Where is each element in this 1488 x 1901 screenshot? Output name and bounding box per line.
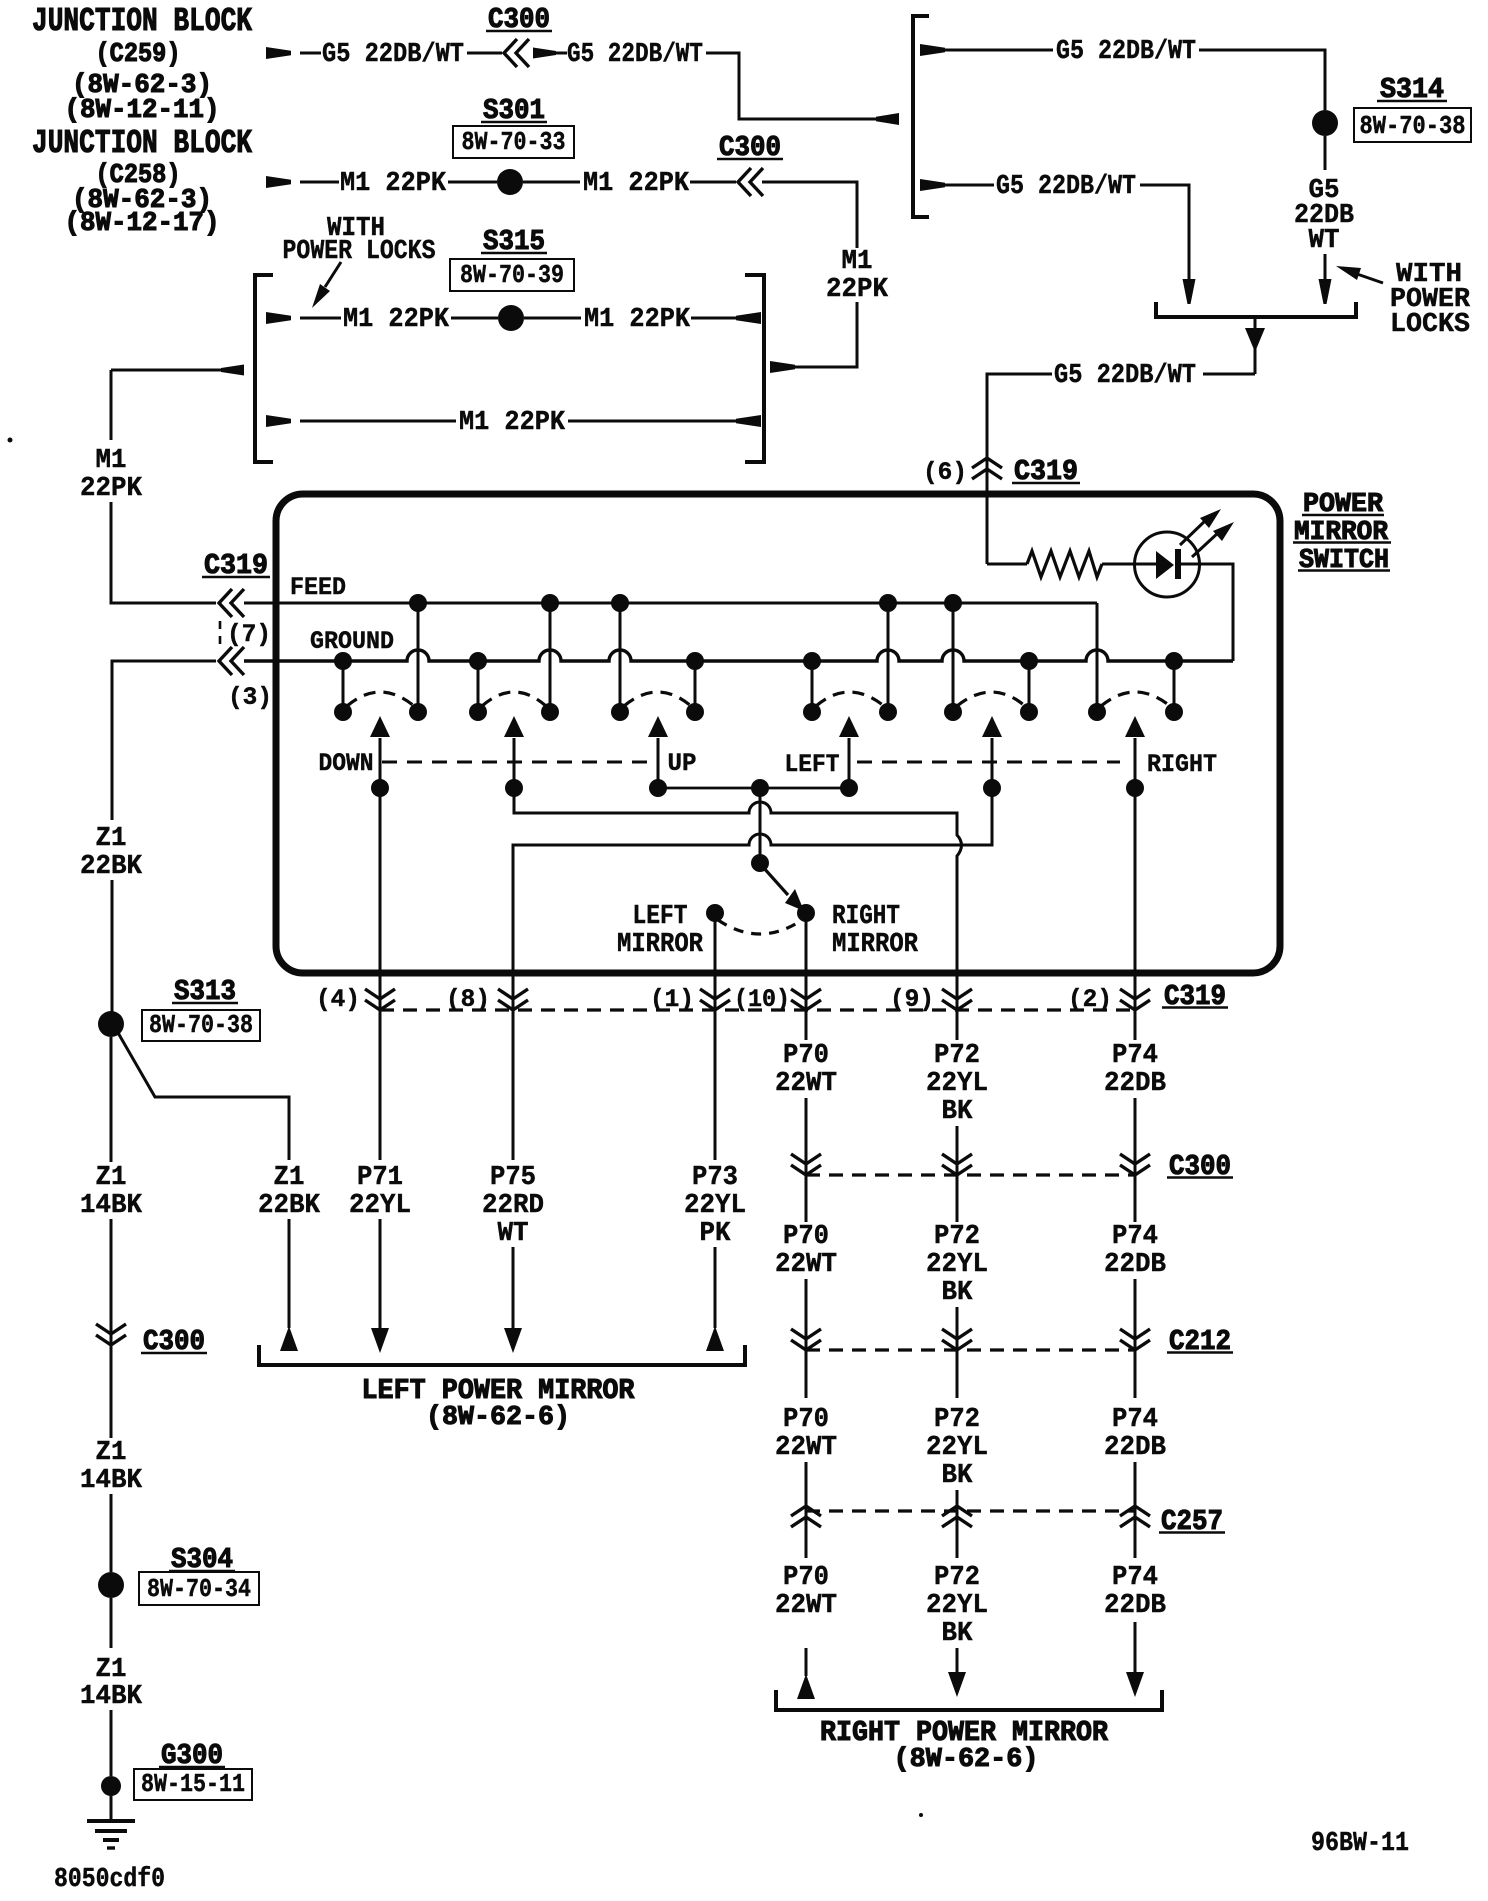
svg-text:(8): (8) [446,985,490,1014]
connector C319 pin (8) [498,989,528,999]
svg-text:22BK: 22BK [258,1191,321,1221]
svg-text:(8W-62-6): (8W-62-6) [894,1745,1039,1775]
connector C319 pin (1) [700,989,730,999]
connector C257 [806,1509,1135,1512]
wire left mirror contact to pin 1 [714,921,717,990]
wire Z1 14BK below S304 [110,1598,113,1648]
pointer arrow WITH POWER LOCKS [325,262,341,287]
switch pole 4: contacts/wiper [803,652,821,670]
bracket cup (with power locks join) [1156,302,1356,317]
svg-text:8W-70-34: 8W-70-34 [147,1574,251,1604]
node LEFT POWER MIRROR [259,1345,745,1365]
svg-text:P70: P70 [783,1041,829,1071]
svg-text:22PK: 22PK [826,275,889,305]
wire M1 22PK from S301 to C300 [523,181,580,184]
svg-text:G5 22DB/WT: G5 22DB/WT [322,40,464,70]
bracket left (power lock wires) [255,275,273,462]
wire pole2 common to pin 9 (crossover) [514,788,962,990]
wire right mirror contact to pin 10 [805,921,808,990]
wire G5 22DB/WT lower right [920,179,945,191]
connector C212 [806,1348,1135,1351]
svg-text:G5 22DB/WT: G5 22DB/WT [1056,37,1196,67]
svg-text:22WT: 22WT [775,1250,837,1280]
wire G5 22DB/WT to junction block C259 [266,47,291,59]
svg-text:LOCKS: LOCKS [1390,310,1470,340]
svg-text:JUNCTION BLOCK: JUNCTION BLOCK [32,125,252,162]
svg-text:8050cdf0: 8050cdf0 [54,1865,165,1895]
svg-text:(4): (4) [316,985,360,1014]
svg-text:GROUND: GROUND [310,627,394,656]
svg-text:22YL: 22YL [926,1250,988,1280]
wire P74 22DB chain [1134,988,1137,1040]
svg-text:G5 22DB/WT: G5 22DB/WT [1054,361,1196,391]
svg-text:22YL: 22YL [349,1191,411,1221]
svg-text:22DB: 22DB [1104,1250,1166,1280]
svg-text:M1 22PK: M1 22PK [340,169,447,199]
wire right-pole to pin 2 [1134,788,1137,990]
connector C300 (Z1) [96,1324,126,1334]
wire G5 22DB/WT upper right [920,44,945,56]
bracket right (power lock wires) [745,275,764,462]
svg-text:8W-70-38: 8W-70-38 [149,1010,253,1040]
wire G5 22DB/WT to mirror switch illumination [1254,317,1257,374]
svg-text:22DB: 22DB [1104,1433,1166,1463]
wire M1 22PK left of S315 [266,312,291,324]
svg-text:(8W-12-11): (8W-12-11) [65,96,220,126]
svg-text:96BW-11: 96BW-11 [1311,1829,1409,1859]
svg-text:Z1: Z1 [96,1655,127,1685]
node RIGHT MIRROR contact [797,904,815,922]
switch pole 6: contacts/wiper [1165,652,1183,670]
selector dashed throw arc [718,920,802,934]
svg-text:M1: M1 [842,247,873,277]
svg-text:22WT: 22WT [775,1591,837,1621]
svg-text:LEFT: LEFT [785,750,840,779]
svg-text:P74: P74 [1112,1563,1158,1593]
wire M1 22PK right of S315 [524,317,581,320]
svg-text:P73: P73 [692,1163,738,1193]
svg-text:22DB: 22DB [1104,1069,1166,1099]
wire up-pole to left-pole link [658,787,849,790]
svg-text:22DB: 22DB [1104,1591,1166,1621]
svg-text:RIGHT: RIGHT [1147,750,1217,779]
wire P70 22WT chain [805,988,808,1040]
junction selector common [751,779,769,797]
svg-text:22RD: 22RD [482,1191,544,1221]
svg-text:BK: BK [942,1619,974,1649]
LED illumination lamp [1135,532,1200,597]
switch pole 1: contacts/wiper [334,652,352,670]
svg-text:M1 22PK: M1 22PK [584,305,691,335]
svg-text:P72: P72 [934,1405,980,1435]
wire M1 22PK lower bus [266,415,291,427]
connector C300 (right run) [806,1173,1135,1176]
svg-text:22YL: 22YL [926,1069,988,1099]
svg-text:P74: P74 [1112,1405,1158,1435]
svg-text:WT: WT [498,1219,529,1249]
svg-text:14BK: 14BK [80,1466,143,1496]
svg-text:BK: BK [942,1097,974,1127]
connector C319 pin (4) [365,989,395,999]
LED light arrows [1180,519,1207,545]
switch pole 2: contacts/wiper [469,652,487,670]
svg-text:MIRROR: MIRROR [832,930,919,960]
svg-text:Z1: Z1 [96,824,127,854]
switch pole 5: contacts/wiper [1020,652,1038,670]
svg-text:22WT: 22WT [775,1069,837,1099]
svg-text:FEED: FEED [290,573,346,602]
svg-text:P74: P74 [1112,1222,1158,1252]
svg-text:(2): (2) [1068,985,1112,1014]
switch pole 3: contacts/wiper [686,652,704,670]
svg-text:22PK: 22PK [80,474,143,504]
svg-text:P70: P70 [783,1405,829,1435]
svg-text:(C259): (C259) [96,40,181,70]
svg-text:WT: WT [1309,226,1340,256]
svg-text:(1): (1) [650,985,694,1014]
svg-text:8W-70-33: 8W-70-33 [462,127,566,157]
svg-text:22BK: 22BK [80,852,143,882]
svg-text:22YL: 22YL [926,1591,988,1621]
wire P73 22YL/PK [714,988,717,1160]
connector C319 pin (9) [942,989,972,999]
wire illumination feed [987,563,1027,566]
wire M1 22PK feed drop (left) [111,369,227,372]
pointer arrow WITH POWER LOCKS right [1357,274,1383,283]
svg-text:8W-70-39: 8W-70-39 [460,260,564,290]
svg-text:G5 22DB/WT: G5 22DB/WT [567,40,703,70]
svg-text:P72: P72 [934,1041,980,1071]
resistor (illumination) [1027,551,1102,577]
svg-text:P71: P71 [357,1163,403,1193]
wire P71 22YL [379,988,382,1160]
wire Z1 22BK from switch ground [112,661,216,820]
selector switch pivot [751,854,769,872]
svg-text:(8W-62-6): (8W-62-6) [426,1403,570,1433]
svg-text:14BK: 14BK [80,1682,143,1712]
svg-text:(8W-12-17): (8W-12-17) [65,209,220,239]
svg-text:BK: BK [942,1278,974,1308]
wire P72 22YL/BK chain [956,988,959,1040]
svg-text:8W-15-11: 8W-15-11 [141,1769,245,1799]
wire G5 22DB/WT from C300 to right [533,48,556,59]
svg-text:22YL: 22YL [684,1191,746,1221]
connector C319 pin (2) [1120,989,1150,999]
svg-text:P70: P70 [783,1222,829,1252]
wire Z1 22BK spur from S313 [117,1031,289,1160]
svg-text:LEFT: LEFT [633,902,688,932]
svg-text:RIGHT: RIGHT [832,902,900,932]
wire pole5 common to pin 8 (crossover) [513,788,992,990]
wire LED to ground bus [1181,564,1233,661]
wire P74 end arrow [1134,1622,1137,1674]
svg-text:Z1: Z1 [96,1163,127,1193]
svg-text:UP: UP [668,749,697,778]
svg-text:DOWN: DOWN [319,749,374,778]
svg-text:P70: P70 [783,1563,829,1593]
svg-text:G5 22DB/WT: G5 22DB/WT [996,172,1136,202]
wire down-pole to pin 4 [379,788,382,990]
svg-text:22WT: 22WT [775,1433,837,1463]
svg-text:(6): (6) [923,458,967,487]
svg-text:M1 22PK: M1 22PK [343,305,450,335]
svg-text:JUNCTION BLOCK: JUNCTION BLOCK [32,3,252,40]
svg-text:P74: P74 [1112,1041,1158,1071]
wire Z1 14BK below S313 [110,1037,113,1162]
svg-text:M1: M1 [96,446,127,476]
svg-text:POWER LOCKS: POWER LOCKS [283,237,436,267]
svg-text:(7): (7) [227,620,271,649]
connector C319 (output row) [380,1008,1135,1011]
wire M1 22PK down to power-lock bracket [762,182,857,248]
wire P72 end arrow [956,1648,959,1674]
svg-text:(10): (10) [734,985,790,1014]
svg-text:P75: P75 [490,1163,536,1193]
node LEFT MIRROR contact [706,904,724,922]
power mirror switch box [276,494,1280,973]
wire P75 22RD/WT [512,988,515,1160]
svg-text:P72: P72 [934,1563,980,1593]
stray mark [8,438,13,443]
svg-text:BK: BK [942,1461,974,1491]
svg-text:Z1: Z1 [96,1438,127,1468]
svg-text:PK: PK [700,1219,732,1249]
svg-text:M1 22PK: M1 22PK [459,408,566,438]
node RIGHT POWER MIRROR [776,1690,1162,1710]
svg-text:14BK: 14BK [80,1191,143,1221]
svg-text:8W-70-38: 8W-70-38 [1360,111,1466,141]
svg-text:MIRROR: MIRROR [617,930,704,960]
svg-text:22YL: 22YL [926,1433,988,1463]
bracket right G5 distribution [913,16,929,217]
connector C319 pin (10) [791,989,821,999]
svg-text:P72: P72 [934,1222,980,1252]
wire G5 22DB WT below S314 [1324,136,1327,170]
wire P70 end arrow [805,1648,808,1676]
svg-text:M1 22PK: M1 22PK [583,169,690,199]
svg-text:(3): (3) [228,683,272,712]
wire M1 22PK to junction block C258 [266,176,291,188]
ground symbol [87,1819,135,1823]
svg-text:(9): (9) [890,985,934,1014]
svg-text:Z1: Z1 [274,1163,305,1193]
